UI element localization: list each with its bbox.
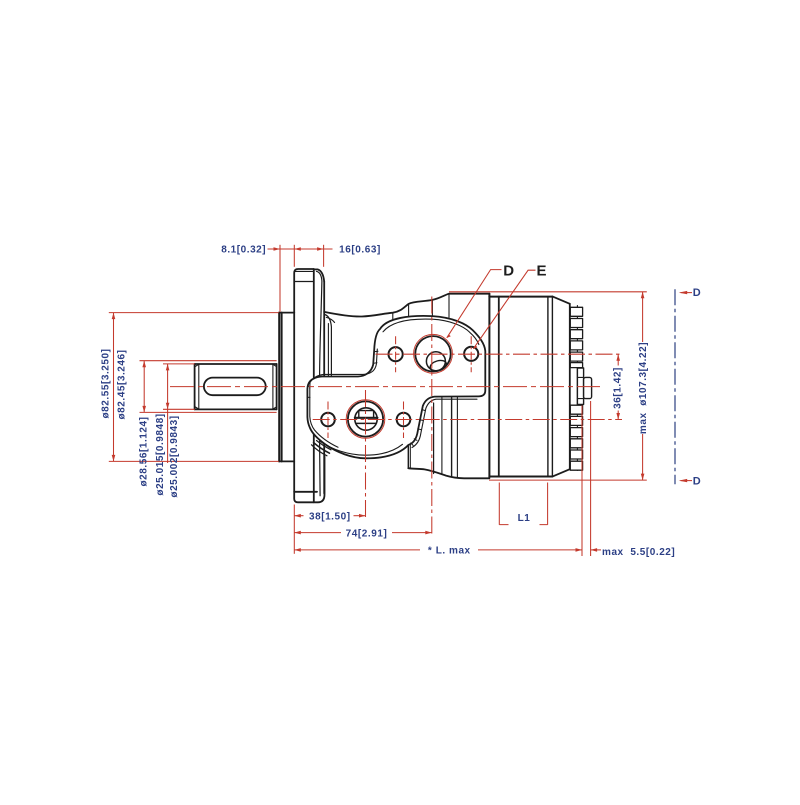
top extension line boss face bbox=[279, 245, 281, 312]
end cap right face bbox=[569, 304, 571, 469]
flange back edge bbox=[323, 282, 325, 494]
blob inner line top dome bbox=[383, 319, 479, 344]
lower port slot thick chord bbox=[355, 417, 378, 419]
svg-text:max ø107.3[4.22]: max ø107.3[4.22] bbox=[638, 342, 649, 434]
cylinder top edge bbox=[489, 296, 552, 298]
cylinder bottom edge bbox=[489, 476, 552, 478]
dim 38 line left bbox=[294, 515, 303, 517]
dia107 dim line top bbox=[642, 292, 644, 342]
svg-text:ø25.015[0.9848]: ø25.015[0.9848] bbox=[155, 413, 166, 495]
cylinder left face line bbox=[488, 294, 490, 478]
dia25 extension bottom bbox=[163, 408, 195, 410]
flange front plate line 281 bbox=[294, 281, 314, 283]
arrow 74 right bbox=[425, 531, 432, 535]
svg-text:D: D bbox=[693, 287, 702, 299]
dome beak diagonal 2 bbox=[317, 441, 332, 450]
flange front plate right edge bbox=[313, 269, 315, 502]
port D counterbore circle bbox=[426, 352, 445, 371]
dia107 extension bottom bbox=[489, 479, 647, 481]
dim 38 line right bbox=[354, 515, 366, 517]
bolt hole lower-left bbox=[321, 413, 335, 427]
body neck bottom silhouette bbox=[408, 468, 489, 478]
shaft right end face bbox=[276, 364, 278, 409]
shaft right chamfer corners bbox=[273, 364, 277, 409]
arrow 8.1/16 mid bbox=[294, 247, 301, 251]
shaft left chamfer corners bbox=[195, 364, 199, 409]
end cap top chamfer bbox=[552, 296, 569, 303]
neck tick 3 bbox=[431, 300, 433, 317]
pilot boss bottom edge bbox=[279, 460, 294, 462]
pilot boss face line 1 bbox=[278, 313, 280, 462]
arrow 36 bottom bbox=[616, 413, 620, 420]
svg-text:16[0.63]: 16[0.63] bbox=[339, 244, 381, 255]
fillet facet ticks bbox=[411, 410, 425, 446]
port D inner ellipse bbox=[429, 359, 448, 373]
section D arrow bottom line bbox=[681, 480, 693, 482]
dia107 dim line bottom bbox=[642, 434, 644, 480]
dim 74 line left bbox=[294, 532, 341, 534]
lower port thread circle bbox=[346, 400, 385, 439]
lower port slot walls bbox=[359, 411, 374, 418]
svg-text:D: D bbox=[503, 263, 514, 280]
port face blob bbox=[307, 316, 485, 458]
arrow dia28 top bbox=[142, 361, 146, 368]
top extension line flange back bbox=[323, 245, 325, 267]
arrow section D bottom bbox=[679, 479, 688, 482]
extension 5.5 left bbox=[581, 406, 583, 557]
arrow dia82 top bbox=[112, 313, 116, 320]
dia28 dimension line bbox=[143, 361, 145, 413]
dim Lmax line right bbox=[478, 549, 582, 551]
dome right facet tick 2 bbox=[411, 433, 414, 436]
dim 36 line bottom bbox=[617, 411, 619, 420]
arrow leader D bbox=[447, 335, 451, 339]
svg-text:38[1.50]: 38[1.50] bbox=[309, 512, 351, 523]
port D outer circle bbox=[415, 336, 450, 371]
top extension line flange front bbox=[293, 245, 295, 267]
hub divider lines bbox=[577, 377, 583, 398]
arrow dia25 top bbox=[166, 364, 170, 371]
blob inner line ledge corner bbox=[310, 374, 324, 388]
blob inner line left edge bbox=[310, 388, 338, 447]
blob inner line lower-right (outside chamfer) bbox=[412, 399, 477, 447]
blob inner line left upper bbox=[324, 349, 378, 374]
flange front plate bbox=[294, 269, 324, 502]
neck tick 1 bbox=[392, 313, 394, 331]
arrow 8.1 left bbox=[274, 247, 281, 251]
shaft body fill bbox=[195, 364, 277, 409]
dim 74 line right bbox=[392, 532, 432, 534]
lower port slot lower chord bbox=[356, 422, 375, 424]
body step vertical 2 bbox=[441, 397, 443, 473]
cylinder seam 2 bbox=[547, 297, 549, 477]
keyway slot bbox=[204, 378, 266, 396]
dia82 dimension line bbox=[113, 313, 115, 462]
shaft right chamfer bbox=[272, 364, 274, 409]
arrow Lmax left bbox=[294, 548, 301, 552]
teeth base line bbox=[576, 306, 578, 471]
lower port inner circle bbox=[355, 408, 377, 430]
lower row centerline bbox=[313, 419, 622, 421]
neck top inner chamfer bbox=[326, 317, 334, 322]
arrow dia107 bottom bbox=[641, 474, 645, 481]
svg-text:ø25.002[0.9843]: ø25.002[0.9843] bbox=[169, 415, 180, 497]
arrow section D top bbox=[679, 291, 688, 294]
dim Lmax line left bbox=[294, 549, 420, 551]
svg-text:E: E bbox=[537, 263, 548, 280]
dia25 dimension line bbox=[167, 364, 169, 463]
dia28 extension top bbox=[140, 360, 277, 362]
svg-text:ø82.45[3.246]: ø82.45[3.246] bbox=[116, 350, 127, 420]
shaft left chamfer bbox=[198, 364, 200, 409]
arrow dia107 top bbox=[641, 292, 645, 299]
body step vertical 3 bbox=[451, 397, 453, 476]
dim L1 left extension bbox=[498, 483, 500, 525]
dome beak diagonal 3 bbox=[312, 445, 328, 456]
main axis centerline bbox=[170, 386, 600, 388]
shaft left end face bbox=[194, 364, 196, 409]
neck tick 2 bbox=[408, 304, 410, 321]
bolt hole lower-right bbox=[397, 413, 411, 427]
arrow 5.5 bbox=[591, 548, 598, 552]
port D thread circle bbox=[414, 334, 453, 373]
dim L1 stubs bbox=[499, 524, 547, 526]
pilot boss top edge bbox=[279, 312, 294, 314]
arrow leader E bbox=[473, 345, 477, 349]
arrow dia25 bottom bbox=[166, 403, 170, 410]
body neck top silhouette bbox=[324, 294, 489, 317]
bolt hole crosshair UL bbox=[395, 336, 397, 372]
bolt hole crosshair LR bbox=[403, 402, 405, 439]
arrow dia82 bottom bbox=[112, 455, 116, 462]
lower port outer circle bbox=[348, 401, 383, 436]
output hub outer block bbox=[584, 377, 592, 398]
shaft top edge bbox=[195, 363, 277, 365]
svg-text:max 5.5[0.22]: max 5.5[0.22] bbox=[602, 547, 675, 558]
svg-text:36[1.42]: 36[1.42] bbox=[613, 367, 624, 409]
cylinder seam 3 bbox=[551, 297, 553, 477]
svg-text:ø28.56[1.124]: ø28.56[1.124] bbox=[139, 417, 150, 487]
end cap bottom chamfer bbox=[552, 469, 569, 476]
dia107 extension top bbox=[449, 291, 647, 293]
svg-text:D: D bbox=[693, 476, 702, 488]
neck left contour corner bbox=[325, 315, 332, 377]
dim 5.5 stub bbox=[591, 549, 601, 551]
arrow 16 right bbox=[317, 247, 324, 251]
arrow 74 left bbox=[294, 531, 301, 535]
flange front bottom extension bbox=[293, 505, 295, 554]
dome tail vertical 2 bbox=[409, 445, 411, 469]
section D-D line bbox=[674, 289, 676, 484]
blob inner line bottom dome bbox=[321, 442, 403, 456]
svg-text:* L. max: * L. max bbox=[428, 546, 471, 557]
arrowheads bbox=[112, 247, 688, 552]
dome right facet tick 1 bbox=[404, 428, 407, 431]
output hub inner block bbox=[577, 368, 583, 404]
body step vertical 1 bbox=[433, 403, 435, 474]
blob left facet ticks bbox=[374, 351, 378, 363]
bolt hole upper-left bbox=[389, 347, 403, 361]
flange top ear corner bbox=[314, 269, 325, 281]
dome tail vertical 1 bbox=[407, 444, 409, 468]
leader D bbox=[447, 270, 502, 338]
shaft bottom edge bbox=[195, 408, 277, 410]
top dimension line bbox=[268, 248, 333, 250]
arrow 38 right bbox=[359, 514, 366, 518]
arrow Lmax right bbox=[576, 548, 583, 552]
dia28 extension bottom bbox=[140, 411, 277, 413]
arrow dia28 bottom bbox=[142, 406, 146, 413]
svg-text:8.1[0.32]: 8.1[0.32] bbox=[221, 244, 266, 255]
dim L1 right extension bbox=[547, 483, 549, 525]
svg-text:74[2.91]: 74[2.91] bbox=[346, 529, 388, 540]
bolt hole crosshair UR bbox=[470, 336, 472, 372]
neck tick 4 bbox=[448, 294, 450, 318]
arrow 36 top bbox=[616, 354, 620, 361]
lower port vertical centerline bbox=[365, 390, 367, 519]
extension 5.5 right bbox=[590, 401, 592, 556]
leader E bbox=[473, 270, 535, 349]
dia82 extension top bbox=[109, 312, 279, 314]
left edge facet ticks bbox=[307, 386, 310, 397]
svg-text:L1: L1 bbox=[518, 513, 531, 524]
upper row centerline bbox=[376, 353, 623, 355]
flange front plate top double line bbox=[294, 270, 314, 272]
dia25 extension top bbox=[163, 363, 195, 365]
flange bottom inner edge bbox=[294, 491, 317, 493]
bolt hole upper-right E bbox=[464, 347, 478, 361]
section D arrow top line bbox=[681, 292, 693, 294]
bolt hole crosshair LL bbox=[327, 402, 329, 439]
neck left contour line 2 bbox=[327, 324, 329, 377]
dia82 extension bottom bbox=[109, 460, 279, 462]
dim 36 line top bbox=[617, 354, 619, 365]
pilot boss face line 2 bbox=[281, 313, 283, 462]
port D vertical centerline bbox=[431, 297, 433, 538]
cylinder seam 1 bbox=[498, 297, 500, 477]
dome beak diagonal 1 bbox=[314, 443, 330, 454]
flange inner bevel line bbox=[317, 271, 322, 496]
arrow 38 left bbox=[294, 514, 301, 518]
spline teeth column bbox=[570, 307, 582, 470]
body step vertical 4 bbox=[456, 397, 458, 478]
svg-text:ø82.55[3.250]: ø82.55[3.250] bbox=[100, 349, 111, 419]
